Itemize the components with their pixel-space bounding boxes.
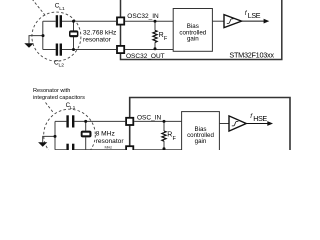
svg-text:8 MHz: 8 MHz [96, 130, 115, 137]
capacitor CL1 plates [56, 15, 58, 27]
leader line (dashed, from cut-off label) [32, 0, 47, 17]
squarer glyph inside amp [227, 19, 234, 24]
svg-text:L1: L1 [70, 105, 76, 111]
crystal 32.768 kHz resonator body [69, 30, 78, 37]
output wire fLSE [242, 20, 266, 22]
dashed circle around resonator [44, 109, 96, 161]
svg-text:STM32F103xx: STM32F103xx [229, 50, 274, 59]
wire: bottom OSC32_OUT [43, 49, 116, 51]
arrowhead [264, 19, 270, 24]
capacitor top plates [66, 115, 68, 127]
crystal 8 MHz resonator body [81, 131, 92, 138]
capacitor CL2 plates [56, 44, 58, 56]
wire pin to bias box bottom [125, 49, 173, 51]
node dot RF top [163, 120, 166, 123]
wire: left vertical [42, 21, 44, 49]
ground wire [43, 136, 55, 142]
wire pin to bias box top [125, 20, 173, 22]
pin OSC_IN [126, 118, 133, 125]
node dot ground tap [42, 34, 45, 37]
wire box to amp [219, 123, 229, 125]
svg-text:L2: L2 [59, 63, 65, 69]
output wire fHSE [246, 123, 269, 125]
svg-text:F: F [173, 136, 177, 142]
wire pin to bias box bottom [134, 149, 182, 151]
svg-text:Resonator with: Resonator with [33, 88, 70, 94]
op-amp buffer triangle [224, 15, 242, 28]
node dot crystal top [72, 20, 75, 23]
crystal branch wires [85, 121, 87, 149]
node dot crystal top [84, 120, 87, 123]
node dot RF bottom [163, 147, 166, 150]
wire box to amp [212, 20, 224, 22]
wire: top OSC32_IN [43, 20, 116, 22]
svg-text:OSC32_IN: OSC32_IN [127, 13, 159, 20]
chip box bottom [130, 98, 290, 153]
wire: top OSC_IN [55, 120, 125, 122]
ground symbol [24, 43, 33, 47]
svg-text:F: F [164, 36, 168, 42]
resistor RF zigzag [162, 131, 166, 141]
op-amp buffer triangle [229, 116, 246, 131]
svg-text:OSC32_OUT: OSC32_OUT [126, 53, 165, 60]
squarer glyph inside amp [232, 121, 239, 126]
pin OSC_OUT [126, 146, 133, 153]
bias controlled gain box [182, 112, 220, 155]
leader line dashed [46, 103, 55, 114]
resistor RF stubs [163, 121, 165, 149]
chip box STM32F103xx [121, 0, 282, 60]
node dot ground tap [54, 135, 57, 138]
dashed circle around resonator [32, 12, 81, 61]
svg-text:MHz: MHz [105, 145, 113, 150]
svg-text:L1: L1 [59, 6, 65, 12]
svg-text:HSE: HSE [253, 114, 267, 123]
svg-text:R: R [167, 132, 172, 139]
resistor RF stubs [154, 21, 156, 49]
svg-text:gain: gain [195, 138, 207, 145]
svg-text:OSC_IN: OSC_IN [137, 114, 162, 121]
ground wire [29, 36, 43, 44]
node dot crystal bottom [72, 48, 75, 51]
ground symbol [38, 142, 47, 146]
capacitor bottom plates [66, 144, 68, 150]
node dot RF top [154, 20, 157, 23]
node dot RF bottom [154, 47, 157, 50]
svg-text:resonator: resonator [83, 36, 112, 43]
crystal branch wires [73, 21, 75, 49]
bias controlled gain box [173, 9, 212, 52]
svg-text:R: R [159, 32, 164, 39]
wire: bottom OSC_OUT [55, 149, 125, 151]
arrowhead [267, 121, 273, 126]
wire pin to bias box top [134, 120, 182, 122]
svg-text:32.768 kHz: 32.768 kHz [83, 29, 116, 36]
wire: left vertical [54, 121, 56, 149]
svg-text:integrated capacitors: integrated capacitors [33, 95, 85, 101]
resistor RF zigzag [153, 30, 157, 42]
pin OSC32_OUT [117, 46, 124, 53]
svg-text:gain: gain [187, 36, 199, 43]
svg-text:LSE: LSE [248, 11, 261, 20]
pin OSC32_IN [117, 17, 124, 24]
